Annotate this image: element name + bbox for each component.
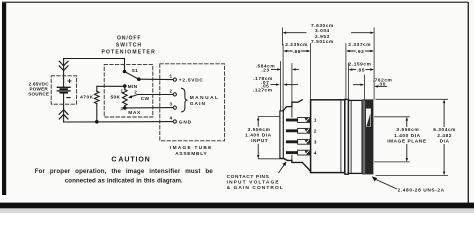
- tube mid section inner line: [350, 100, 352, 173]
- leader contact pins: [279, 165, 285, 173]
- svg-text:ON/OFF: ON/OFF: [117, 35, 141, 41]
- svg-text:POTENIOMETER: POTENIOMETER: [101, 50, 155, 56]
- svg-text:.85: .85: [357, 67, 365, 73]
- extension line connector neck left: [291, 64, 293, 106]
- svg-text:IMAGE TUBE: IMAGE TUBE: [170, 145, 213, 151]
- extension line tube right end: [373, 28, 375, 99]
- svg-text:1: 1: [121, 89, 124, 94]
- svg-text:INPUT VOLTAGE: INPUT VOLTAGE: [227, 179, 280, 185]
- resistor 470K: [95, 91, 100, 103]
- svg-text:.23: .23: [261, 67, 269, 73]
- wire MAX to terminal 3: [125, 107, 173, 109]
- tube input faceplate: [280, 111, 283, 158]
- brace manual gain: [182, 88, 188, 112]
- svg-text:2.235cm: 2.235cm: [285, 42, 308, 48]
- svg-text:2.337cm: 2.337cm: [348, 42, 371, 48]
- leader thread callout: [375, 179, 396, 189]
- connector chevrons bottom (up): [59, 110, 68, 119]
- tube main body: [311, 100, 345, 173]
- switch S1 arm: [125, 72, 139, 80]
- potentiometer 50K node MIN: [123, 84, 127, 88]
- battery dashed enclosure: [51, 76, 76, 104]
- potentiometer 50K element: [123, 90, 128, 106]
- svg-text:CAUTION: CAUTION: [111, 157, 150, 164]
- label CONTACT PINS INPUT VOLTAGE & GAIN CONTROL: [227, 174, 284, 191]
- connector chevrons top (down): [59, 61, 68, 70]
- contact pin 1: [286, 118, 317, 123]
- svg-text:2.482: 2.482: [437, 133, 452, 139]
- svg-text:3.556cm: 3.556cm: [396, 127, 419, 133]
- battery 2.65VDC plates: [57, 87, 70, 92]
- wire 470K top corner to MIN: [97, 86, 124, 91]
- svg-text:1.400 DIA: 1.400 DIA: [245, 133, 272, 139]
- svg-text:connected as indicated in this: connected as indicated in this diagram.: [65, 178, 183, 185]
- wire switch to terminal 1: [139, 78, 173, 80]
- contact pin 3: [286, 139, 317, 144]
- svg-text:6.304cm: 6.304cm: [433, 127, 456, 133]
- label ON/OFF SWITCH POTENIOMETER: [101, 35, 155, 55]
- terminal 3: [173, 106, 176, 109]
- svg-text:CW: CW: [141, 96, 150, 102]
- extension line thread band left: [363, 75, 365, 99]
- svg-text:2: 2: [170, 88, 173, 93]
- svg-text:+2.5VDC: +2.5VDC: [179, 77, 204, 83]
- thread band window: [366, 109, 371, 127]
- svg-text:.92: .92: [356, 49, 364, 55]
- extension line flange right: [347, 63, 349, 99]
- svg-text:.127cm: .127cm: [253, 88, 273, 94]
- dimension 7.630cm 3.004 2.953 7.501cm overall length: [286, 32, 371, 34]
- svg-text:4: 4: [314, 150, 317, 155]
- contact pin 4: [286, 150, 317, 155]
- contact pin 2: [286, 128, 317, 133]
- wire bottom rail: [64, 121, 174, 123]
- potentiometer 50K top stub: [124, 86, 126, 90]
- svg-text:& GAIN CONTROL: & GAIN CONTROL: [227, 185, 284, 191]
- tube neck left edge segments: [291, 107, 293, 161]
- extension line body left: [310, 44, 312, 100]
- page border top line: [2, 2, 468, 3]
- battery 2.65VDC stem top: [63, 59, 65, 88]
- battery minus sign: [67, 97, 70, 99]
- label 2.65VDC POWER SOURCE: [28, 82, 49, 97]
- svg-text:GND: GND: [179, 119, 192, 125]
- tube mid section: [348, 100, 362, 173]
- battery plus sign: [68, 79, 71, 82]
- svg-text:3: 3: [314, 140, 317, 145]
- page border bottom bar: [0, 203, 474, 209]
- tube thread band 2.480-28: [362, 99, 373, 174]
- svg-text:IMAGE PLANE: IMAGE PLANE: [387, 139, 427, 145]
- svg-text:50K: 50K: [110, 94, 120, 100]
- svg-text:7.630cm: 7.630cm: [311, 23, 334, 29]
- svg-text:SOURCE: SOURCE: [28, 92, 49, 97]
- svg-text:For proper operation, the imag: For proper operation, the image intensif…: [35, 168, 214, 175]
- svg-text:2: 2: [134, 89, 137, 94]
- svg-text:3.556cm: 3.556cm: [248, 127, 271, 133]
- terminal 2: [173, 93, 176, 96]
- svg-text:1: 1: [314, 118, 317, 123]
- potentiometer wiper arrow: [131, 95, 173, 97]
- terminal 1: [173, 78, 176, 81]
- image tube assembly dashed enclosure: [160, 64, 225, 141]
- terminal 4: [173, 120, 176, 123]
- page border left bar: [2, 2, 6, 195]
- svg-text:7.501cm: 7.501cm: [311, 39, 334, 45]
- dimension 3.556cm 1.400 DIA INPUT: [258, 117, 283, 159]
- switch S1 pivot: [123, 70, 127, 74]
- svg-text:S1: S1: [132, 68, 139, 74]
- tube connector housing bottom outline: [283, 158, 310, 171]
- switch box dashed enclosure: [104, 65, 153, 117]
- svg-text:MANUAL: MANUAL: [190, 95, 220, 101]
- svg-text:2.159cm: 2.159cm: [349, 61, 372, 67]
- svg-text:.88: .88: [293, 49, 301, 55]
- svg-text:MAX: MAX: [128, 110, 141, 116]
- switch S1 contact: [137, 77, 141, 81]
- dimension 6.304cm 2.482 DIA: [376, 99, 448, 175]
- dimension 3.556cm 1.400 DIA IMAGE PLANE: [375, 117, 410, 162]
- svg-text:ASSEMBLY: ASSEMBLY: [175, 151, 207, 157]
- svg-text:CONTACT PINS: CONTACT PINS: [227, 174, 270, 180]
- wire top rail battery to switch: [64, 58, 125, 60]
- svg-text:1.400 DIA: 1.400 DIA: [394, 133, 421, 139]
- junction 470K bottom rail: [95, 120, 99, 124]
- wire 470K bottom: [96, 104, 98, 122]
- svg-text:3: 3: [170, 102, 173, 107]
- svg-text:3: 3: [121, 106, 124, 111]
- svg-text:2.953: 2.953: [315, 34, 330, 40]
- svg-text:2: 2: [314, 129, 317, 134]
- svg-text:470K: 470K: [80, 94, 94, 100]
- extension line input plate left edge: [279, 62, 281, 111]
- dimension .178cm .07 .05 .127cm faceplate: [253, 76, 273, 93]
- tube connector housing top outline: [283, 100, 302, 111]
- svg-text:4: 4: [170, 115, 173, 120]
- svg-text:2.480-28 UNS-2A: 2.480-28 UNS-2A: [398, 188, 445, 194]
- potentiometer node MAX: [123, 106, 127, 110]
- tube flange: [345, 99, 349, 174]
- svg-text:DIA: DIA: [440, 139, 450, 145]
- svg-text:3.004: 3.004: [315, 28, 330, 34]
- extension line input plate right edge / overall left: [282, 45, 284, 111]
- page border right line: [468, 2, 469, 203]
- potentiometer 50K bottom stub: [124, 106, 126, 108]
- battery stem bottom: [63, 93, 65, 122]
- extension line flange left: [345, 44, 347, 100]
- svg-text:1: 1: [170, 74, 173, 79]
- svg-text:GAIN: GAIN: [190, 101, 206, 107]
- svg-text:INPUT: INPUT: [251, 138, 268, 144]
- svg-text:SWITCH: SWITCH: [116, 42, 142, 48]
- tube body inner line: [340, 100, 342, 173]
- wire switch feed: [124, 59, 126, 72]
